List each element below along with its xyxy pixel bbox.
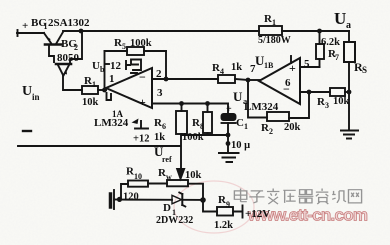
potentiometer RW 10k xyxy=(167,180,188,186)
svg-text:2SA1302: 2SA1302 xyxy=(48,17,90,29)
terminal left bottom block xyxy=(111,190,121,209)
svg-text:a: a xyxy=(346,20,351,31)
svg-text:1.2k: 1.2k xyxy=(214,220,233,231)
svg-text:1: 1 xyxy=(92,80,96,89)
junction pin6/R2 xyxy=(307,90,312,95)
svg-text:10k: 10k xyxy=(185,170,202,181)
ground under C1 xyxy=(219,153,239,162)
wire pin3 line xyxy=(152,103,228,105)
wire R5 left vertical xyxy=(104,51,106,90)
svg-text:5/180W: 5/180W xyxy=(258,35,291,46)
resistor R10 120 xyxy=(128,181,148,187)
resistor R 5/180W in rail xyxy=(259,26,282,35)
resistor R9 1.2k xyxy=(217,207,233,216)
junction pin3/R6 xyxy=(179,101,184,106)
svg-text:−: − xyxy=(283,82,290,96)
wire node down to R9 xyxy=(203,200,217,212)
junction C1/ground xyxy=(226,141,231,146)
diode D1 2DW232 xyxy=(172,193,185,207)
svg-text:4: 4 xyxy=(220,67,224,76)
svg-text:LM324: LM324 xyxy=(244,101,279,113)
op-amp 1A V+ terminal +12 xyxy=(135,121,148,129)
svg-text:6: 6 xyxy=(162,122,166,131)
junction R3/RS xyxy=(347,90,352,95)
svg-text:+12V: +12V xyxy=(245,208,270,220)
svg-text:3: 3 xyxy=(157,87,163,99)
resistor R3 10k xyxy=(330,88,345,96)
minus sign xyxy=(23,130,31,132)
svg-text:C: C xyxy=(236,117,244,129)
pin stub under node xyxy=(107,93,112,100)
wire BG2 collector to rail xyxy=(70,31,82,63)
svg-text:120: 120 xyxy=(123,192,139,203)
wire Uref vertical to pot wiper xyxy=(180,135,182,169)
op-amp U1B LM324 xyxy=(259,58,300,104)
wire pin6 xyxy=(300,91,330,93)
watermark chinese text xyxy=(234,189,361,205)
junction terminal/R10 xyxy=(117,197,122,202)
wire top rail xyxy=(63,30,259,32)
svg-text:S: S xyxy=(362,65,367,75)
svg-text:+: + xyxy=(22,20,28,32)
junction rail/BG2 collector xyxy=(79,29,84,34)
svg-text:U: U xyxy=(92,60,100,72)
wire RS to ground xyxy=(348,92,350,130)
wire pin2 line xyxy=(152,78,218,80)
svg-text:20k: 20k xyxy=(284,122,301,133)
svg-text:+12: +12 xyxy=(133,134,149,145)
transistor BG2 8050 xyxy=(56,64,71,76)
trimmer symbol above op-amp xyxy=(131,60,141,74)
wire pot right down xyxy=(188,184,203,200)
resistor RS sense xyxy=(344,31,355,92)
resistor R8 100k xyxy=(203,104,212,136)
svg-text:6.2k: 6.2k xyxy=(321,37,340,48)
junction C1/bus xyxy=(226,133,231,138)
transistor BG1 2SA1302 xyxy=(44,32,63,45)
svg-text:100k: 100k xyxy=(130,38,152,49)
wire R1 to node xyxy=(98,89,106,91)
svg-text:U: U xyxy=(22,84,32,99)
svg-text:+: + xyxy=(226,104,232,115)
svg-text:1B: 1B xyxy=(264,61,274,70)
svg-text:5: 5 xyxy=(122,42,126,51)
svg-text:1: 1 xyxy=(272,18,276,27)
junction pin1 node Ub xyxy=(102,88,107,93)
wire diode branch xyxy=(121,199,172,201)
wire BG2 emitter to R1 xyxy=(63,76,82,90)
svg-text:5: 5 xyxy=(304,58,310,70)
resistor R6 1k xyxy=(176,104,187,135)
junction pin3/R8 xyxy=(205,101,210,106)
op-amp U2 1A LM324 xyxy=(106,68,152,108)
svg-text:b: b xyxy=(100,65,105,74)
svg-text:8: 8 xyxy=(200,122,204,131)
svg-text:U: U xyxy=(233,89,243,104)
svg-text:2DW232: 2DW232 xyxy=(156,215,193,226)
junction rail/R7 xyxy=(317,29,322,34)
svg-text:10 μ: 10 μ xyxy=(231,140,250,151)
watermark logo ellipse xyxy=(174,181,254,233)
wire input + xyxy=(17,32,44,34)
svg-text:1: 1 xyxy=(44,22,48,31)
svg-text:−: − xyxy=(139,70,146,84)
wire D1 to node xyxy=(183,199,203,201)
svg-text:12: 12 xyxy=(110,60,122,72)
junction RW/D1/R9 xyxy=(200,197,206,203)
wire R2 feedback loop xyxy=(248,80,267,118)
svg-text:10: 10 xyxy=(134,172,142,181)
junction pin7 node xyxy=(246,78,251,83)
wire pin5 xyxy=(300,66,320,68)
svg-text:D: D xyxy=(163,202,171,214)
wire C1 top lead xyxy=(227,104,229,115)
svg-text:10k: 10k xyxy=(82,97,99,108)
svg-text:7: 7 xyxy=(335,53,339,62)
svg-text:1k: 1k xyxy=(154,132,165,143)
svg-text:10k: 10k xyxy=(333,96,350,107)
resistor R7 6.2k xyxy=(316,31,324,67)
pot wiper arrow xyxy=(177,169,185,181)
svg-text:8050: 8050 xyxy=(57,52,80,64)
wire R9 to +12V tick xyxy=(233,206,243,218)
wire left riser to R10 xyxy=(121,184,128,199)
svg-text:9: 9 xyxy=(226,200,230,209)
wire R5 right vertical xyxy=(165,51,167,79)
wire R4 to node7 xyxy=(235,79,248,80)
svg-text:LM324: LM324 xyxy=(94,117,129,129)
pin 12 tick xyxy=(126,61,130,69)
resistor R5 100k xyxy=(127,47,144,55)
resistor R4 1k xyxy=(218,75,235,83)
wire bottom rail minus xyxy=(18,145,180,147)
wire bottom bus R6 R8 C1 xyxy=(182,134,229,135)
svg-text:2: 2 xyxy=(156,68,162,80)
svg-text:ref: ref xyxy=(162,155,172,164)
ground under RS xyxy=(341,131,358,139)
svg-text:+: + xyxy=(289,61,296,75)
svg-text:1: 1 xyxy=(244,122,248,131)
svg-text:2: 2 xyxy=(269,127,273,136)
svg-text:in: in xyxy=(32,92,40,102)
junction pin2/R5 xyxy=(164,77,169,82)
svg-text:2: 2 xyxy=(74,43,78,52)
resistor R1 10k xyxy=(82,86,98,94)
svg-text:1k: 1k xyxy=(231,62,242,73)
svg-text:U: U xyxy=(334,9,346,28)
svg-text:1: 1 xyxy=(109,73,115,85)
op-amp polarity signs xyxy=(139,61,296,109)
svg-text:100k: 100k xyxy=(182,132,204,143)
wire R10 to pot xyxy=(148,183,167,185)
svg-text:3: 3 xyxy=(325,101,329,110)
capacitor C1 10u xyxy=(222,114,236,153)
wire BG1 base to BG2 xyxy=(49,45,54,62)
resistor R2 20k xyxy=(267,112,289,121)
svg-text:+: + xyxy=(139,95,146,109)
svg-text:w: w xyxy=(166,173,172,182)
